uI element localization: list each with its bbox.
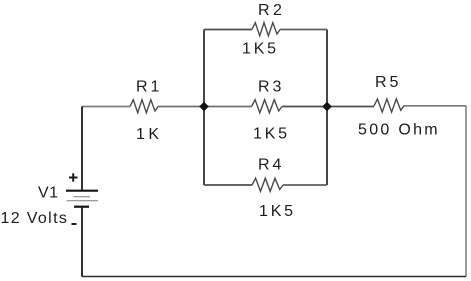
battery minus sign <box>72 223 77 225</box>
wire parallel-box right vertical <box>326 30 328 186</box>
resistor R3 <box>252 100 283 113</box>
svg-text:R3: R3 <box>258 79 284 96</box>
resistor R1 <box>130 100 158 113</box>
battery plus sign <box>69 173 78 181</box>
svg-text:1K5: 1K5 <box>242 41 279 58</box>
svg-text:500 Ohm: 500 Ohm <box>358 122 440 139</box>
wire main horizontal left segment <box>82 106 130 108</box>
resistor R2 <box>252 23 280 36</box>
svg-text:V1: V1 <box>38 185 59 202</box>
wire main horizontal between R1 and R3 <box>158 106 252 108</box>
node junction left <box>199 102 209 112</box>
wire bottom <box>82 276 466 278</box>
node junction right <box>322 102 332 112</box>
svg-text:1K5: 1K5 <box>259 203 296 220</box>
wire left vertical bottom (battery - to bottom wire) <box>81 207 83 277</box>
battery V1 <box>66 191 98 207</box>
svg-text:R4: R4 <box>258 157 284 174</box>
wire bottom branch right segment <box>283 184 327 186</box>
wire main horizontal between R3 and R5 <box>282 106 374 108</box>
wire top branch right segment <box>280 29 327 31</box>
svg-text:12 Volts: 12 Volts <box>1 210 69 227</box>
wire bottom branch left segment <box>204 184 252 186</box>
svg-text:R5: R5 <box>375 74 401 91</box>
wire left vertical top (node to battery +) <box>81 107 83 191</box>
svg-text:R1: R1 <box>136 79 162 96</box>
wire parallel-box left vertical <box>203 30 205 186</box>
svg-text:1K: 1K <box>136 126 163 143</box>
svg-text:1K5: 1K5 <box>253 126 290 143</box>
resistor R4 <box>252 178 283 191</box>
wire main horizontal right segment to corner <box>404 105 466 107</box>
svg-text:R2: R2 <box>258 2 285 19</box>
wire right vertical <box>465 106 467 277</box>
resistor R5 <box>374 99 404 112</box>
wire top branch left segment <box>204 29 252 31</box>
